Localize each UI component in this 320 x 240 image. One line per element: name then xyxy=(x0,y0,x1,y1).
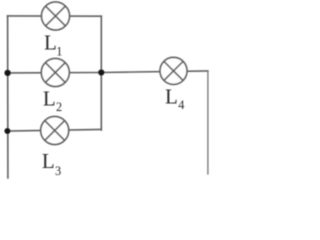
label L3 xyxy=(42,149,61,178)
wire right rail xyxy=(207,71,209,174)
junction dot row3 left xyxy=(4,128,10,134)
wire middle row xyxy=(8,71,208,73)
lamp L4 xyxy=(160,57,187,84)
svg-text:L: L xyxy=(43,87,56,111)
junction dot row2 right xyxy=(98,69,104,75)
lamp L2 xyxy=(41,59,69,87)
svg-text:4: 4 xyxy=(178,98,184,112)
svg-text:3: 3 xyxy=(55,164,61,178)
svg-text:1: 1 xyxy=(56,45,62,59)
label L4 xyxy=(165,85,184,112)
svg-text:L: L xyxy=(44,30,57,54)
svg-text:2: 2 xyxy=(56,100,62,114)
lamp L3 xyxy=(41,117,69,145)
wire top row xyxy=(8,15,102,17)
junction dot row2 left xyxy=(4,70,10,76)
label L2 xyxy=(43,87,62,114)
wire right rail of parallel block xyxy=(100,16,102,130)
lamp L1 xyxy=(42,2,70,30)
svg-text:L: L xyxy=(165,85,178,109)
wire left rail xyxy=(7,16,9,178)
wire bottom row of parallel block xyxy=(8,130,102,132)
label L1 xyxy=(44,30,62,58)
svg-text:L: L xyxy=(42,149,55,173)
